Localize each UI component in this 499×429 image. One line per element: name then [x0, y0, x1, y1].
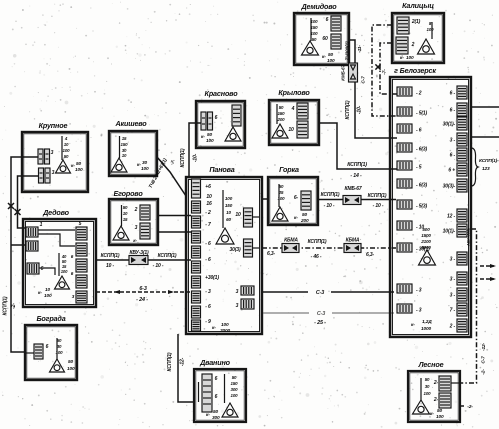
svg-text:6,3-: 6,3-	[366, 252, 375, 258]
line block 3 in Дедово	[27, 263, 39, 274]
svg-text:6,3-: 6,3-	[267, 251, 276, 257]
label к 50/100 in Красново	[201, 132, 214, 144]
repeater КМБ-67 on Демидово wire	[349, 63, 358, 82]
line block 7 in Дедово	[76, 275, 87, 288]
svg-text:100: 100	[436, 414, 444, 420]
station box Крупное	[22, 132, 88, 192]
svg-text:6: 6	[215, 115, 218, 121]
svg-text:6: 6	[71, 271, 74, 276]
svg-text:100: 100	[61, 269, 68, 274]
wire Белозерск right top 1	[471, 106, 499, 108]
svg-text:150: 150	[121, 142, 129, 147]
gain block 2 in Егорово	[140, 223, 150, 239]
svg-text:30(3)-: 30(3)-	[443, 184, 456, 190]
label к 50/300 in Дванино	[206, 409, 220, 421]
svg-text:500: 500	[422, 227, 430, 232]
label к 50/100 in Демидово	[322, 52, 335, 64]
station box Панова	[186, 177, 262, 334]
svg-text:60: 60	[322, 36, 328, 42]
svg-text:6-: 6-	[294, 195, 299, 201]
svg-text:КСПП(1): КСПП(1)	[321, 192, 340, 198]
svg-text:к-: к-	[212, 326, 216, 331]
svg-text:50: 50	[312, 37, 317, 42]
svg-text:50: 50	[232, 375, 237, 380]
svg-text:3: 3	[236, 289, 239, 295]
repeater КБМА 1	[282, 244, 299, 253]
svg-text:2000: 2000	[219, 328, 231, 334]
line block R3 in Белозерск	[457, 117, 467, 130]
input line of Бограда amplifier	[56, 338, 58, 360]
arrow left on dashed wire	[114, 290, 120, 294]
line block 8 in Дедово	[76, 291, 87, 303]
line block R8 in Белозерск	[457, 209, 467, 222]
wire Крылово to Белозерск	[319, 123, 397, 169]
svg-text:100: 100	[206, 138, 214, 144]
gain values in Крупное	[63, 136, 71, 159]
svg-text:КВУ-3(1): КВУ-3(1)	[129, 250, 149, 256]
svg-text:2: 2	[134, 207, 138, 213]
gain values in Крылово	[277, 105, 286, 122]
svg-text:50: 50	[76, 161, 82, 167]
svg-text:- 3: - 3	[416, 308, 422, 314]
gain block 1 in Демидово	[331, 16, 341, 31]
svg-text:100: 100	[231, 393, 239, 398]
svg-text:100: 100	[75, 167, 83, 173]
line block 4 in Панова	[192, 231, 201, 243]
svg-text:6: 6	[41, 266, 44, 272]
svg-text:-7-: -7-	[382, 69, 388, 75]
svg-text:1500: 1500	[421, 233, 431, 238]
svg-text:3 -: 3 -	[450, 138, 456, 144]
wire Акишево to Панова (diagonal)	[157, 157, 186, 196]
svg-text:4: 4	[291, 106, 295, 112]
svg-text:-12-: -12-	[481, 342, 487, 350]
amplifier in Красново	[225, 127, 241, 141]
svg-text:300: 300	[231, 387, 239, 392]
line block R12 in Белозерск	[457, 288, 467, 301]
svg-text:5: 5	[79, 221, 82, 227]
svg-text:30: 30	[425, 384, 430, 389]
gain block in Красново	[232, 105, 241, 126]
svg-text:4: 4	[64, 136, 68, 141]
svg-text:200: 200	[277, 117, 286, 122]
svg-text:-10-: -10-	[357, 105, 363, 114]
wire Горка to Белозерск	[318, 199, 396, 201]
svg-text:к-: к-	[133, 238, 137, 243]
svg-text:- 6: - 6	[205, 241, 211, 247]
line block L3 in Белозерск	[397, 124, 412, 133]
input line of Дедово amplifier	[58, 253, 60, 276]
station box Демидово	[294, 13, 349, 65]
svg-text:г Белозерск: г Белозерск	[394, 66, 436, 75]
input line of Егорово amplifier	[121, 205, 123, 226]
svg-text:30(3): 30(3)	[230, 247, 241, 253]
svg-text:100: 100	[221, 322, 229, 328]
line block in Бограда	[34, 344, 43, 359]
gain block 2 in Лесное	[439, 393, 451, 408]
line block 2 in Дедово	[26, 241, 38, 251]
svg-text:16: 16	[206, 201, 212, 207]
svg-text:10: 10	[45, 287, 51, 293]
input line of Дванино amplifier	[224, 374, 226, 403]
gain block in Горка	[301, 191, 311, 210]
svg-text:50: 50	[302, 212, 308, 218]
station box Егорово	[109, 199, 158, 245]
svg-text:7 -: 7 -	[450, 308, 456, 314]
amplifier in Калицыц	[418, 39, 435, 54]
line block 7 in Панова	[192, 276, 201, 288]
brace for КСПП(1)-123 group	[472, 148, 478, 186]
gain block 1 in Крылово	[297, 103, 308, 119]
line block L11 in Белозерск	[397, 304, 412, 313]
svg-text:50: 50	[123, 205, 128, 210]
svg-text:- 6(3): - 6(3)	[416, 183, 428, 189]
label к 50/100 in Лесное	[430, 408, 444, 420]
input line of Акишево amplifier	[119, 136, 121, 158]
gain block 2 in Демидово	[331, 34, 341, 49]
svg-text:-2-: -2-	[467, 404, 473, 410]
transformer Tp2 in Крупное	[39, 168, 51, 183]
amplifier in Демидово	[302, 41, 319, 55]
svg-text:-10-: -10-	[193, 153, 199, 162]
svg-text:10: 10	[122, 153, 127, 158]
svg-text:6 +: 6 +	[448, 168, 455, 174]
out block 1 bottom right in Панова	[241, 286, 254, 295]
station box Бограда	[25, 325, 77, 380]
station box Дедово	[23, 219, 96, 307]
svg-text:КСПП(1): КСПП(1)	[167, 352, 173, 371]
line block L8 in Белозерск	[397, 221, 412, 230]
svg-text:Калицыц: Калицыц	[402, 1, 434, 10]
wire Панова to Дванино	[178, 334, 194, 402]
line block L5 in Белозерск	[397, 161, 412, 170]
svg-text:- 10 -: - 10 -	[324, 203, 335, 209]
svg-text:15: 15	[123, 217, 128, 222]
svg-text:Егорово: Егорово	[113, 189, 143, 198]
svg-text:- 5: - 5	[416, 165, 422, 171]
out block 2 bottom right in Панова	[241, 299, 254, 309]
svg-text:50: 50	[213, 409, 219, 415]
svg-text:С-7: С-7	[361, 76, 367, 84]
svg-text:Дванино: Дванино	[199, 358, 231, 367]
svg-text:КБМА: КБМА	[346, 238, 360, 244]
svg-text:50: 50	[64, 154, 69, 159]
svg-text:100: 100	[406, 55, 414, 61]
arrow right on dashed wire	[168, 290, 174, 294]
line block R2 in Белозерск	[457, 103, 467, 116]
svg-text:к-: к-	[294, 216, 298, 221]
svg-text:-12-: -12-	[180, 357, 186, 366]
wire Панова to Белозерск С-3 lower	[263, 312, 394, 314]
wire Белозерск right mid (to Лесное trunk)	[460, 229, 477, 383]
gain block 2 in Калицыц	[396, 37, 408, 54]
gain values in Дедово	[61, 254, 68, 274]
svg-text:3: 3	[72, 294, 75, 299]
input line of Калицыц amplifier	[431, 22, 433, 39]
transformer in Красново	[201, 112, 213, 130]
wire Демидово to Белозерск	[349, 40, 397, 138]
label к 10/100 in Дедово	[38, 287, 52, 299]
svg-text:5000: 5000	[421, 245, 431, 250]
svg-text:КМБ-67: КМБ-67	[341, 65, 346, 81]
svg-text:- 9: - 9	[205, 319, 211, 325]
svg-text:100: 100	[311, 31, 319, 36]
svg-text:6 -: 6 -	[450, 91, 456, 97]
gain values in Панова	[225, 196, 233, 222]
svg-text:С-7: С-7	[481, 356, 487, 364]
svg-text:к-: к-	[430, 412, 434, 417]
internal wire c in Дедово	[39, 268, 55, 275]
svg-text:3: 3	[51, 150, 54, 156]
line block R7 in Белозерск	[457, 179, 467, 192]
input line of Демидово amplifier	[310, 18, 312, 41]
svg-text:6: 6	[46, 344, 49, 350]
svg-text:- 14 -: - 14 -	[350, 173, 362, 179]
svg-text:к-: к-	[38, 291, 42, 296]
wire into Бограда	[25, 352, 34, 354]
svg-text:КСПП(1): КСПП(1)	[308, 239, 327, 245]
line block 2 in Панова	[192, 201, 201, 213]
svg-text:150: 150	[231, 381, 239, 386]
svg-text:10: 10	[206, 194, 212, 200]
gain block right 1 in Панова	[244, 208, 253, 227]
svg-text:- 10 -: - 10 -	[153, 263, 164, 269]
svg-text:к-: к-	[322, 55, 326, 60]
line block R10 in Белозерск	[457, 252, 467, 265]
svg-text:3: 3	[135, 225, 138, 231]
line block L6 in Белозерск	[397, 179, 412, 188]
svg-text:150: 150	[225, 203, 233, 208]
svg-text:15: 15	[122, 136, 127, 141]
station box Калицыц	[392, 13, 444, 63]
gain values in Белозерск	[420, 227, 431, 250]
station box Лесное	[408, 371, 460, 422]
line block L9 in Белозерск	[397, 243, 412, 252]
svg-text:- 3: - 3	[416, 288, 422, 294]
line block R1 in Белозерск	[457, 86, 467, 99]
svg-text:2: 2	[411, 42, 415, 48]
gain block right 2 in Панова	[244, 239, 253, 257]
line block R5 in Белозерск	[457, 148, 467, 161]
svg-text:ТЧ8 2042+63(1): ТЧ8 2042+63(1)	[148, 157, 169, 189]
svg-text:Дедово: Дедово	[42, 208, 70, 217]
svg-text:- 6: - 6	[205, 257, 211, 263]
svg-text:2-: 2-	[433, 380, 439, 386]
gain block 1 in Лесное	[439, 376, 451, 391]
svg-text:- 3: - 3	[205, 289, 211, 295]
line block R9 in Белозерск	[457, 224, 467, 237]
bracket line in Дванино	[198, 382, 200, 402]
gain values in Калицыц	[427, 21, 435, 32]
svg-text:150: 150	[278, 111, 286, 116]
input line of Горка amplifier	[278, 184, 280, 207]
svg-text:50: 50	[437, 408, 443, 414]
svg-text:3: 3	[236, 303, 239, 309]
svg-text:Бограда: Бограда	[36, 314, 65, 323]
svg-text:- 6: - 6	[205, 304, 211, 310]
svg-text:100: 100	[311, 19, 319, 24]
repeater КВУ-3(1)	[129, 256, 148, 265]
svg-text:ТЧ300(1): ТЧ300(1)	[345, 41, 351, 61]
label к 1,2Д/1000 in Белозерск	[411, 319, 432, 332]
svg-text:50: 50	[68, 359, 74, 365]
svg-text:+6: +6	[205, 184, 211, 190]
svg-text:100: 100	[424, 391, 432, 396]
svg-text:1: 1	[40, 222, 43, 228]
line block 1 in Дедово	[26, 227, 38, 237]
label к 100/2000 in Панова	[212, 322, 231, 334]
svg-text:-2-: -2-	[11, 303, 17, 309]
svg-text:к-: к-	[400, 56, 404, 61]
svg-text:Красново: Красново	[205, 89, 239, 98]
svg-text:100: 100	[141, 166, 149, 172]
stub right 2 in Панова	[253, 247, 260, 249]
svg-text:6: 6	[215, 376, 218, 382]
amplifier in Лесное	[413, 400, 430, 414]
svg-text:10(1)-: 10(1)-	[443, 229, 456, 235]
label к 50/100 in Акишево	[137, 160, 149, 172]
line block R11 in Белозерск	[457, 272, 467, 285]
cross mark on line B	[375, 64, 380, 69]
amplifier in Белозерск	[419, 250, 436, 265]
amplifier in Горка	[272, 207, 288, 221]
svg-text:к-: к-	[206, 413, 210, 418]
arrow stub 2 right of Белозерск	[480, 277, 496, 281]
wire Белозерск right top 2	[471, 136, 499, 138]
svg-text:КСПП(1): КСПП(1)	[345, 100, 351, 119]
line block R4 in Белозерск	[457, 133, 467, 146]
svg-text:2(1): 2(1)	[411, 19, 421, 25]
line block L10 in Белозерск	[397, 284, 412, 293]
gain block 2 in Крылово	[297, 121, 308, 138]
svg-text:-7-: -7-	[169, 158, 177, 166]
svg-text:КСПП(1)-: КСПП(1)-	[479, 158, 499, 164]
line block tall in Панова	[192, 179, 201, 198]
wire Калицыц to Белозерск line B	[380, 43, 397, 94]
svg-text:6: 6	[215, 394, 218, 400]
svg-text:- 5(3): - 5(3)	[416, 204, 428, 210]
wire Крупное to Дедово (left vertical 2)	[18, 176, 39, 228]
svg-text:100: 100	[427, 27, 435, 32]
transformer Tp1 in Крупное	[38, 149, 50, 164]
amplifier in Панова	[216, 228, 234, 244]
svg-text:100: 100	[44, 293, 52, 299]
svg-text:к-: к-	[411, 323, 415, 328]
svg-text:- 2: - 2	[205, 210, 211, 216]
svg-text:КСПП(1): КСПП(1)	[101, 253, 120, 259]
svg-text:200: 200	[300, 218, 309, 224]
svg-text:12 -: 12 -	[447, 214, 456, 220]
wire Лесное right stub	[460, 405, 466, 407]
svg-text:- 10 -: - 10 -	[373, 203, 384, 209]
input line of Лесное amplifier	[420, 378, 422, 400]
station box Горка	[268, 177, 318, 225]
svg-text:150: 150	[311, 25, 319, 30]
wire Дедово to Панова dashed (6-3 circuit)	[96, 291, 190, 293]
svg-text:100: 100	[327, 58, 335, 64]
gain block 1 in Калицыц	[397, 17, 409, 34]
svg-text:3 -: 3 -	[450, 257, 456, 263]
svg-text:Горка: Горка	[279, 165, 299, 174]
svg-text:100: 100	[63, 148, 71, 153]
line block 6 in Панова	[192, 261, 201, 273]
repeater КМБ-67 on Горка wire	[343, 196, 361, 205]
wire Панова to Горка stub	[262, 198, 268, 200]
repeater КБМА 2	[344, 244, 361, 253]
svg-text:10 -: 10 -	[106, 263, 115, 269]
wire Лесное block to right edge	[451, 382, 460, 384]
line block 6 in Дедово	[76, 259, 87, 272]
wire Егорово to Панова lower	[158, 231, 191, 233]
cable cross mark 1	[8, 203, 14, 209]
svg-text:3: 3	[52, 170, 55, 176]
svg-text:3 -: 3 -	[450, 293, 456, 299]
svg-text:-11-: -11-	[357, 45, 363, 53]
svg-text:КСПП(1): КСПП(1)	[347, 162, 367, 168]
svg-text:КСПП(1): КСПП(1)	[158, 253, 177, 259]
arrow stub 1 right of Белозерск	[480, 264, 496, 268]
amplifier in Крупное	[56, 160, 71, 173]
svg-text:30(1)-: 30(1)-	[443, 122, 456, 128]
gain values in Акишево	[121, 136, 129, 158]
svg-text:100: 100	[67, 366, 75, 372]
wire Калицыц to Белозерск line A	[372, 25, 397, 116]
station box Белозерск	[390, 77, 471, 337]
svg-text:1,2Д: 1,2Д	[422, 319, 432, 325]
amplifier in Акишево	[111, 158, 127, 172]
amplifier in Крылово	[272, 124, 288, 138]
gain values in Горка	[278, 184, 286, 201]
svg-text:Крылово: Крылово	[278, 88, 310, 97]
svg-text:- 6: - 6	[416, 128, 422, 134]
cable cross mark 2	[15, 209, 21, 215]
line block 9 in Панова	[192, 306, 201, 318]
gain values in Бограда	[56, 338, 64, 355]
svg-text:2-: 2-	[433, 397, 439, 403]
gain values in Лесное	[424, 377, 432, 396]
svg-text:Акишево: Акишево	[114, 119, 147, 128]
svg-text:Лесное: Лесное	[418, 360, 444, 369]
label 50/100 in Бограда	[67, 359, 75, 372]
internal wire a in Дедово	[38, 229, 75, 231]
svg-text:- 7: - 7	[205, 222, 211, 228]
wire Панова to Белозерск (КБМА link)	[262, 247, 396, 249]
amplifier in Бограда	[50, 359, 65, 372]
station box Крылово	[269, 100, 319, 145]
stub right 1 in Панова	[253, 216, 260, 218]
internal wire b in Дедово	[38, 234, 75, 246]
gain values in Демидово	[311, 19, 319, 42]
svg-text:300: 300	[212, 415, 220, 421]
svg-text:50: 50	[279, 105, 284, 110]
svg-text:50: 50	[207, 132, 213, 138]
station box Дванино	[194, 369, 246, 422]
svg-text:6-3: 6-3	[139, 286, 146, 292]
svg-text:10: 10	[288, 127, 294, 133]
svg-text:к-: к-	[201, 135, 205, 140]
svg-text:2100: 2100	[420, 239, 431, 244]
line block 10 in Панова	[192, 320, 201, 331]
svg-text:- 2: - 2	[416, 91, 422, 97]
svg-text:6 -: 6 -	[450, 108, 456, 114]
svg-text:КСПП(1): КСПП(1)	[3, 296, 9, 315]
svg-text:6: 6	[326, 17, 329, 23]
label к 100 in Калицыц	[400, 55, 414, 61]
input line of Панова amplifier	[222, 190, 224, 228]
svg-text:АВУ+АНБ: АВУ+АНБ	[466, 228, 471, 247]
line block 8 in Панова	[192, 291, 201, 303]
svg-text:Панова: Панова	[209, 165, 234, 174]
